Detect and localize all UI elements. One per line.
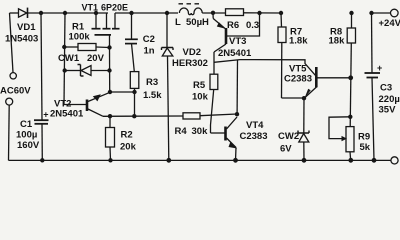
wire collector line to VT4 collector (236, 60, 238, 114)
svg-text:100µ: 100µ (16, 130, 37, 141)
transistor VT2 (50, 92, 110, 119)
svg-text:2N5401: 2N5401 (50, 109, 84, 120)
svg-text:CW2: CW2 (278, 131, 299, 142)
wire gate column (109, 48, 111, 93)
resistor R4 (175, 113, 238, 137)
terminal output bottom (391, 157, 398, 164)
wire top rail left (10, 12, 20, 14)
svg-text:L: L (175, 17, 181, 28)
resistor R3 (130, 72, 162, 101)
wire top rail after VD1 (28, 12, 109, 14)
svg-text:6V: 6V (280, 143, 292, 154)
svg-text:VT1: VT1 (82, 2, 99, 12)
diode VD1 (5, 8, 38, 45)
node R6 right (257, 11, 261, 15)
svg-text:AC60V: AC60V (0, 86, 31, 97)
resistor R5 (192, 74, 218, 133)
svg-text:20k: 20k (120, 141, 137, 152)
svg-text:CW1: CW1 (58, 53, 80, 64)
capacitor C3 (365, 13, 400, 160)
node VD2 top (165, 11, 169, 15)
svg-text:0.3: 0.3 (246, 20, 259, 31)
svg-text:1.5k: 1.5k (143, 90, 162, 101)
svg-text:R3: R3 (146, 77, 158, 88)
node VT3 emitter takeoff (211, 11, 215, 15)
node C3 bottom (372, 158, 377, 163)
wire R7 bottom to VT5 emitter node (282, 97, 305, 99)
node C1 bottom (40, 158, 44, 162)
node VT5 emitter (302, 96, 306, 100)
svg-text:20V: 20V (87, 53, 105, 64)
node VD2 bottom (166, 158, 171, 163)
svg-text:R4: R4 (175, 126, 188, 137)
svg-text:1N5403: 1N5403 (5, 34, 38, 45)
svg-text:C3: C3 (380, 83, 392, 94)
wire L to R6 (202, 12, 225, 14)
node R1 left (62, 45, 66, 49)
svg-text:160V: 160V (17, 140, 40, 151)
node R2 top (108, 114, 112, 118)
node C2 top (129, 11, 133, 15)
svg-text:2N5401: 2N5401 (218, 48, 252, 59)
svg-text:R5: R5 (193, 80, 206, 91)
wire R1/CW1 column (64, 13, 65, 105)
transistor VT4 (211, 117, 268, 160)
wire AC input bottom (8, 105, 11, 160)
node VT1 drain (94, 11, 98, 15)
transistor VT1 (MOSFET) (82, 2, 129, 47)
potentiometer R9 (329, 115, 371, 161)
svg-text:R2: R2 (121, 129, 133, 140)
svg-text:VT3: VT3 (229, 36, 246, 47)
svg-text:35V: 35V (379, 105, 397, 116)
svg-text:10k: 10k (192, 92, 209, 103)
wire C1 column (41, 13, 42, 120)
node C3 top (369, 11, 373, 15)
wire VT2 emitter to R3 (110, 91, 135, 93)
svg-text:+: + (43, 110, 48, 120)
wire VT3 collector column (213, 52, 215, 74)
terminal AC top (10, 73, 16, 79)
terminal +24V (391, 9, 399, 17)
resistor R1 (64, 22, 109, 51)
node R2 bottom (108, 158, 112, 162)
svg-text:6P20E: 6P20E (101, 3, 128, 13)
wire bottom rail (9, 159, 392, 161)
diode VD2 (162, 13, 208, 160)
node R4 wire left (132, 114, 136, 118)
node VT4 collector (235, 112, 239, 116)
svg-text:30k: 30k (192, 126, 209, 137)
node VT5 collector on R8 column (348, 75, 353, 80)
svg-text:C2383: C2383 (240, 131, 268, 142)
node R3 bottom (132, 90, 136, 94)
wire top rail VT1 to C2 (115, 12, 178, 14)
wire AC input top (10, 13, 14, 73)
node CW1 left (62, 68, 66, 72)
terminal AC bottom (6, 98, 13, 105)
zener CW2 (278, 98, 309, 160)
node R7 top (279, 11, 283, 15)
svg-text:HER302: HER302 (172, 58, 208, 69)
svg-text:100k: 100k (69, 32, 91, 43)
node R8 top (349, 11, 353, 15)
wire top rail to +24V (372, 12, 391, 14)
capacitor C2 (125, 13, 155, 72)
resistor R2 (106, 116, 137, 160)
svg-text:R9: R9 (358, 132, 370, 143)
svg-text:VD2: VD2 (183, 47, 201, 58)
node VT4 emitter (233, 158, 238, 163)
wire base wire to R4 (103, 115, 183, 117)
node R1 column top (63, 11, 67, 15)
inductor L (175, 4, 209, 28)
svg-text:5k: 5k (360, 142, 371, 153)
svg-text:C1: C1 (20, 119, 33, 130)
svg-text:18k: 18k (329, 36, 346, 47)
capacitor C1 (16, 110, 49, 151)
svg-text:50µH: 50µH (186, 17, 209, 28)
svg-text:VT4: VT4 (246, 120, 264, 131)
node C1 top (39, 11, 43, 15)
resistor R6 (226, 9, 282, 31)
transistor VT3 (213, 13, 260, 59)
resistor R8 (329, 13, 356, 127)
svg-text:+24V: +24V (379, 18, 400, 29)
transistor VT5 (284, 64, 350, 99)
resistor R7 (278, 13, 308, 98)
node CW2 bottom (302, 158, 307, 163)
svg-text:1.8k: 1.8k (289, 36, 308, 47)
node CW1 right (107, 68, 111, 72)
svg-text:VD1: VD1 (17, 22, 36, 33)
svg-text:1n: 1n (144, 46, 155, 57)
svg-text:C2383: C2383 (284, 74, 312, 85)
svg-text:+: + (377, 63, 382, 73)
wire VT3 collector to VT5 base (214, 60, 316, 76)
wire R3 to base wire (134, 92, 136, 116)
svg-text:220µ: 220µ (379, 94, 400, 105)
wire C1 bottom (41, 124, 43, 161)
node VT2 emitter (108, 90, 112, 94)
node R9 bottom (348, 158, 353, 163)
zener CW1 (58, 53, 109, 76)
svg-text:C2: C2 (143, 34, 155, 45)
node VT1 gate / R1 right (107, 45, 111, 49)
svg-text:R6: R6 (227, 20, 239, 31)
